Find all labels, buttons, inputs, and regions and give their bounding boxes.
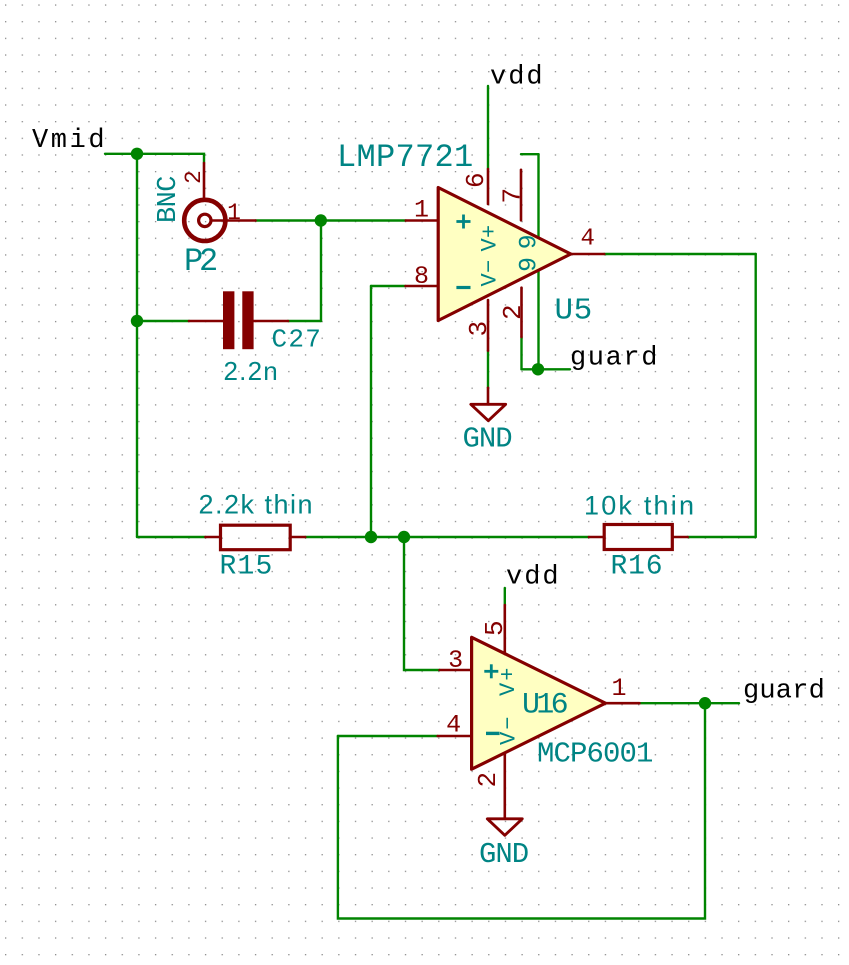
pin 3 of U5 xyxy=(487,300,490,351)
pin 1 of U5 xyxy=(406,219,437,222)
svg-text:GND: GND xyxy=(463,423,512,456)
wire right rail down to R16 xyxy=(755,254,757,537)
wire mid rail center segment xyxy=(305,536,589,538)
svg-text:10k thin: 10k thin xyxy=(584,491,696,521)
pin 4 of U16 xyxy=(438,735,471,738)
wire cap C27 left to left rail xyxy=(137,320,189,322)
svg-text:2.2k thin: 2.2k thin xyxy=(199,490,315,520)
svg-text:U5: U5 xyxy=(555,294,593,329)
wire U5 pin3 to GND xyxy=(487,351,489,388)
svg-text:Vmid: Vmid xyxy=(32,126,107,156)
wire cap C27 right side up to pin1 net xyxy=(320,221,322,322)
node junction U16 input drop xyxy=(398,531,410,543)
svg-text:U16: U16 xyxy=(522,689,568,723)
svg-text:LMP7721: LMP7721 xyxy=(337,139,474,176)
svg-text:3: 3 xyxy=(448,646,463,675)
svg-text:2: 2 xyxy=(181,170,207,184)
pin 5 of U16 xyxy=(503,605,506,654)
node junction guard right xyxy=(699,697,711,709)
svg-text:GND: GND xyxy=(479,838,528,871)
pin right of C27 xyxy=(254,320,288,323)
svg-text:vdd: vdd xyxy=(506,563,561,593)
wire left rail Vmid down to R15 row xyxy=(136,154,138,537)
ground symbol below U16 xyxy=(487,819,522,836)
wire guard label stub xyxy=(522,368,571,370)
wire drop to U16 pin3 xyxy=(404,537,440,670)
wire BNC pin1 to U5 pin1 xyxy=(256,219,406,221)
pin 8 of U5 xyxy=(406,285,438,288)
plus input marker U5 xyxy=(456,215,470,229)
svg-text:V+: V+ xyxy=(496,666,521,696)
svg-text:V−: V− xyxy=(497,715,522,745)
wire U16 feedback loop left/bottom/right xyxy=(338,703,705,918)
connector P2 BNC center circle xyxy=(199,214,211,226)
pin left of R15 xyxy=(205,536,220,539)
pin 2 of U5 xyxy=(520,288,523,337)
pin 1 of P2 xyxy=(212,219,256,222)
wire mid rail right segment xyxy=(688,536,756,538)
wire U16 pin4 horizontal xyxy=(338,735,438,737)
wire mid rail left segment xyxy=(137,536,205,538)
node junction cap left xyxy=(131,315,143,327)
pin left of C27 xyxy=(189,320,223,323)
svg-text:guard: guard xyxy=(570,344,659,374)
svg-text:C27: C27 xyxy=(272,325,323,355)
wire cap C27 right pin to riser xyxy=(288,320,321,322)
svg-text:7: 7 xyxy=(498,188,528,204)
op-amp U5 triangle xyxy=(438,188,571,321)
pin 2 of P2 xyxy=(203,163,206,198)
svg-text:2: 2 xyxy=(473,772,503,788)
wire Vmid horizontal to BNC pin2 corner xyxy=(105,154,204,163)
node junction Vmid xyxy=(131,148,143,160)
wire U5 pin8 feedback horizontal xyxy=(371,285,406,287)
svg-text:V+: V+ xyxy=(478,224,503,251)
wire guard loop top xyxy=(521,153,539,155)
svg-text:1: 1 xyxy=(611,674,626,703)
svg-text:R16: R16 xyxy=(611,552,664,583)
pin 2 of U16 xyxy=(503,753,506,819)
svg-text:3: 3 xyxy=(464,321,494,337)
svg-text:R15: R15 xyxy=(220,552,274,583)
svg-text:MCP6001: MCP6001 xyxy=(537,738,653,771)
minus input marker U16 xyxy=(486,732,500,735)
plus input marker U16 xyxy=(484,664,498,678)
wire vdd to U5 pin6 xyxy=(487,86,489,169)
minus input marker U5 xyxy=(456,286,470,289)
svg-text:2: 2 xyxy=(498,304,528,320)
svg-text:1: 1 xyxy=(227,200,241,226)
pin 6 of U5 xyxy=(487,169,490,204)
wire guard loop right vertical xyxy=(537,154,539,369)
pin 1 output of U16 xyxy=(605,702,639,705)
svg-text:4: 4 xyxy=(580,226,594,253)
svg-text:9 9: 9 9 xyxy=(515,235,544,272)
pin right of R15 xyxy=(290,536,305,539)
svg-text:BNC: BNC xyxy=(154,176,184,223)
svg-text:2.2n: 2.2n xyxy=(224,356,279,386)
pin 3 of U16 xyxy=(440,669,471,672)
wire U5 output horizontal xyxy=(604,253,756,255)
pin right of R16 xyxy=(672,536,687,539)
svg-text:4: 4 xyxy=(446,711,461,740)
svg-text:8: 8 xyxy=(414,262,429,291)
svg-text:1: 1 xyxy=(414,196,429,225)
svg-text:guard: guard xyxy=(743,677,825,707)
svg-text:5: 5 xyxy=(480,620,510,636)
op-amp U16 triangle xyxy=(472,637,606,769)
resistor R16 body xyxy=(604,525,672,550)
pin left of R16 xyxy=(589,536,604,539)
wire U16 output to guard xyxy=(639,702,739,704)
svg-text:V−: V− xyxy=(478,259,503,286)
connector P2 BNC outer ring xyxy=(184,200,225,241)
pin 7 of U5 xyxy=(520,170,523,221)
svg-text:vdd: vdd xyxy=(490,63,545,93)
svg-text:P2: P2 xyxy=(184,243,216,280)
node junction pin1 net xyxy=(315,214,327,226)
wire vdd to U16 pin5 xyxy=(504,588,506,605)
wire feedback riser down to mid rail xyxy=(370,286,372,537)
node junction guard U5 xyxy=(532,363,544,375)
ground symbol below U5 xyxy=(471,388,506,421)
wire U5 pin2 drop to guard xyxy=(520,337,522,369)
node junction feedback / mid rail xyxy=(365,531,377,543)
capacitor C27 right plate xyxy=(242,291,253,349)
capacitor C27 left plate xyxy=(223,291,234,349)
resistor R15 body xyxy=(221,525,291,550)
pin 4 output of U5 xyxy=(571,253,604,256)
